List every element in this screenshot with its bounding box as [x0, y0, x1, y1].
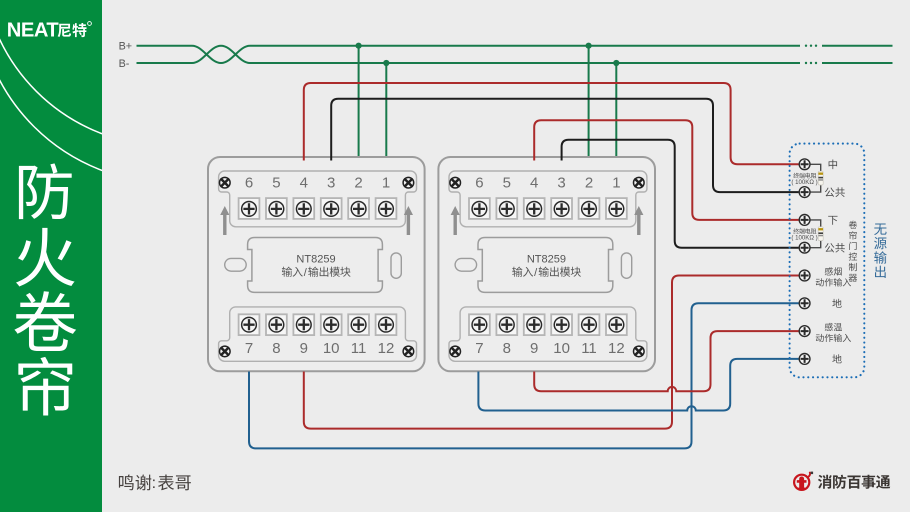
- svg-text:B+: B+: [119, 41, 133, 53]
- svg-text:6: 6: [245, 175, 253, 192]
- svg-text:1: 1: [612, 175, 620, 192]
- module U1 left oval cutout: [225, 258, 247, 271]
- svg-text:10: 10: [323, 340, 340, 357]
- wire B+ drop to U1 pin2 (green): [358, 46, 360, 161]
- credit text 鸣谢:表哥: [119, 474, 151, 490]
- module U1 terminal screw pin 3: [321, 198, 342, 219]
- sidebar title 防火卷帘: [19, 163, 72, 219]
- module U1 label plate: [248, 238, 383, 293]
- wire U2 pin4 to controller 下 (red): [534, 120, 798, 220]
- svg-text:12: 12: [608, 340, 625, 357]
- wire U2 pin9 to controller 感温动作输入 (red), hops over smoke wire: [534, 331, 798, 391]
- module U1 terminal screw pin 5: [266, 198, 287, 219]
- controller terminal screw row 3: [799, 215, 810, 226]
- module U1 mounting screw top-right: [403, 177, 414, 188]
- wire U1 pin7 to controller 地 upper (blue): [249, 303, 799, 448]
- svg-text:9: 9: [300, 340, 308, 357]
- controller terminal screw row 8: [799, 354, 810, 365]
- svg-text:10: 10: [553, 340, 570, 357]
- module U2 right oval cutout: [621, 253, 631, 278]
- wire B+ bus (green, twisted pair): [137, 46, 801, 63]
- wire U1 pin4 to controller 中 (red): [304, 83, 799, 164]
- junction dot on B+ at x=358.6: [356, 43, 362, 49]
- svg-text:NT8259: NT8259: [296, 253, 335, 265]
- module U2 terminal screw pin 9: [524, 314, 545, 335]
- module U2 label 输入/输出模块: [512, 267, 533, 277]
- wire B+ drop to U2 pin2 (green): [588, 46, 590, 161]
- module U1 terminal screw pin 1: [376, 198, 397, 219]
- controller terminal screw row 2: [799, 187, 810, 198]
- module U1 right oval cutout: [391, 253, 401, 278]
- module U2 top terminal strip: [449, 171, 647, 227]
- module U1 orientation arrow: [220, 206, 229, 235]
- controller terminal box (dashed outline): [790, 144, 865, 378]
- module U2 bottom terminal strip: [449, 307, 647, 361]
- svg-text:11: 11: [581, 340, 597, 357]
- module U1 terminal screw pin 7: [239, 314, 260, 335]
- module U1 terminal screw pin 8: [266, 314, 287, 335]
- svg-text:8: 8: [503, 340, 511, 357]
- resistor R2 body: [818, 227, 823, 241]
- module U2 mounting screw top-left: [450, 177, 461, 188]
- module U2 mounting screw bottom-left: [450, 346, 461, 357]
- label 无源输出 (dry contact output): [874, 223, 887, 277]
- svg-text:( 100KΩ ): ( 100KΩ ): [791, 234, 817, 241]
- junction dot on B- at x=616.3: [613, 60, 619, 66]
- module U1 orientation arrow: [404, 206, 413, 235]
- module U2 mounting screw top-right: [634, 177, 645, 188]
- module U2 terminal screw pin 10: [551, 314, 572, 335]
- green sidebar: [0, 0, 102, 512]
- wire B- drop to U1 pin1 (green): [385, 63, 387, 161]
- module U2 terminal screw pin 5: [496, 198, 517, 219]
- module U2 terminal screw pin 7: [469, 314, 490, 335]
- svg-text:7: 7: [245, 340, 253, 357]
- fire info logo emblem: [794, 472, 813, 490]
- module U2 terminal screw pin 2: [579, 198, 600, 219]
- module U1 bottom terminal strip: [219, 307, 417, 361]
- module U2 terminal screw pin 3: [551, 198, 572, 219]
- resistor R2 value label 终端电阻 (100KΩ): [793, 228, 816, 234]
- terminal label 地 (lower): [832, 354, 841, 363]
- svg-text:9: 9: [530, 340, 538, 357]
- svg-text::: :: [152, 475, 156, 492]
- svg-text:8: 8: [272, 340, 280, 357]
- svg-text:NT8259: NT8259: [527, 253, 566, 265]
- module U1 mounting screw bottom-left: [220, 346, 231, 357]
- svg-text:5: 5: [503, 175, 511, 192]
- junction dot on B- at x=386.3: [383, 60, 389, 66]
- module U1 mounting screw bottom-right: [403, 346, 414, 357]
- svg-text:6: 6: [475, 175, 483, 192]
- module U2 terminal screw pin 12: [606, 314, 627, 335]
- module U1 terminal screw pin 4: [293, 198, 314, 219]
- svg-text:3: 3: [557, 175, 565, 192]
- controller terminal screw row 5: [799, 270, 810, 281]
- junction dot on B+ at x=588.6: [586, 43, 592, 49]
- module U2 terminal screw pin 11: [579, 314, 600, 335]
- svg-text:( 100KΩ ): ( 100KΩ ): [791, 179, 817, 186]
- controller terminal screw row 7: [799, 326, 810, 337]
- module U2 terminal screw pin 6: [469, 198, 490, 219]
- module U1 top terminal strip: [219, 171, 417, 227]
- controller terminal screw row 4: [799, 242, 810, 253]
- terminal label 公共 (lower): [825, 243, 845, 253]
- terminal label 地 (upper): [832, 299, 841, 308]
- svg-text:4: 4: [300, 175, 308, 192]
- module U1 terminal screw pin 11: [348, 314, 369, 335]
- svg-text:5: 5: [272, 175, 280, 192]
- module U2 orientation arrow: [451, 206, 460, 235]
- module U2 left oval cutout: [455, 258, 477, 271]
- module U1 label 输入/输出模块: [282, 267, 303, 277]
- module U2 label plate: [478, 238, 613, 293]
- module U2 mounting screw bottom-right: [634, 346, 645, 357]
- controller terminal screw row 1: [799, 159, 810, 170]
- module U1 terminal screw pin 6: [239, 198, 260, 219]
- resistor R1 value label 终端电阻 (100KΩ): [793, 173, 816, 179]
- module U1 terminal screw pin 12: [376, 314, 397, 335]
- svg-text:B-: B-: [119, 58, 130, 70]
- wire U1 pin9 to controller 感烟动作输入 (red): [304, 276, 799, 429]
- svg-text:4: 4: [530, 175, 538, 192]
- svg-text:2: 2: [585, 175, 593, 192]
- svg-text:2: 2: [354, 175, 362, 192]
- module U1 terminal screw pin 10: [321, 314, 342, 335]
- wire U2 pin7 to controller 地 lower (blue), hops over ground wire: [478, 359, 798, 411]
- wire B- drop to U2 pin1 (green): [615, 63, 617, 161]
- module U2 NT8259 input/output module body: [438, 157, 655, 371]
- module U1 terminal screw pin 9: [293, 314, 314, 335]
- module U2 terminal screw pin 8: [496, 314, 517, 335]
- label 卷帘门控制器 (roller door controller): [849, 221, 858, 282]
- terminal label 感烟动作输入: [825, 267, 842, 275]
- svg-text:11: 11: [351, 340, 367, 357]
- terminal label 下: [828, 216, 837, 225]
- terminating resistor R2 100K between terminals (wire stub): [805, 220, 821, 248]
- wire B- bus (green, twisted pair): [137, 46, 801, 63]
- fire info logo text 消防百事通: [818, 475, 890, 489]
- resistor R1 body: [818, 171, 823, 185]
- svg-text:3: 3: [327, 175, 335, 192]
- wire U1 pin3 to controller 公共 upper (black): [331, 99, 798, 192]
- terminal label 中: [829, 159, 837, 169]
- module U2 terminal screw pin 1: [606, 198, 627, 219]
- wire U2 pin3 to controller 公共 lower (black): [562, 140, 799, 248]
- terminating resistor R1 100K between terminals (wire stub): [805, 164, 821, 192]
- svg-text:NEAT: NEAT: [7, 20, 60, 42]
- controller terminal screw row 6: [799, 298, 810, 309]
- svg-text:1: 1: [382, 175, 390, 192]
- module U1 terminal screw pin 2: [348, 198, 369, 219]
- terminal label 公共 (upper): [825, 187, 845, 197]
- module U2 orientation arrow: [634, 206, 643, 235]
- svg-text:7: 7: [475, 340, 483, 357]
- module U1 NT8259 input/output module body: [208, 157, 425, 371]
- module U2 terminal screw pin 4: [524, 198, 545, 219]
- svg-text:12: 12: [378, 340, 395, 357]
- terminal label 感温动作输入: [825, 323, 842, 331]
- module U1 mounting screw top-left: [220, 177, 231, 188]
